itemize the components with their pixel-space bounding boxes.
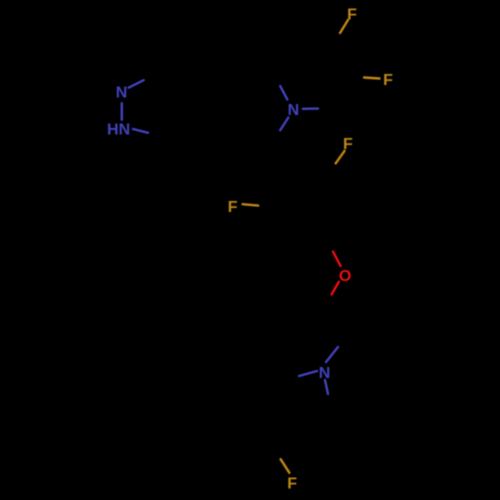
- svg-text:F: F: [347, 7, 357, 24]
- svg-text:F: F: [383, 72, 393, 89]
- svg-text:N: N: [319, 365, 331, 382]
- svg-text:N: N: [288, 102, 300, 119]
- svg-text:N: N: [116, 84, 128, 101]
- svg-text:O: O: [339, 268, 351, 285]
- svg-text:F: F: [343, 136, 353, 153]
- svg-text:F: F: [287, 476, 297, 493]
- svg-text:F: F: [228, 199, 238, 216]
- svg-text:HN: HN: [107, 121, 130, 138]
